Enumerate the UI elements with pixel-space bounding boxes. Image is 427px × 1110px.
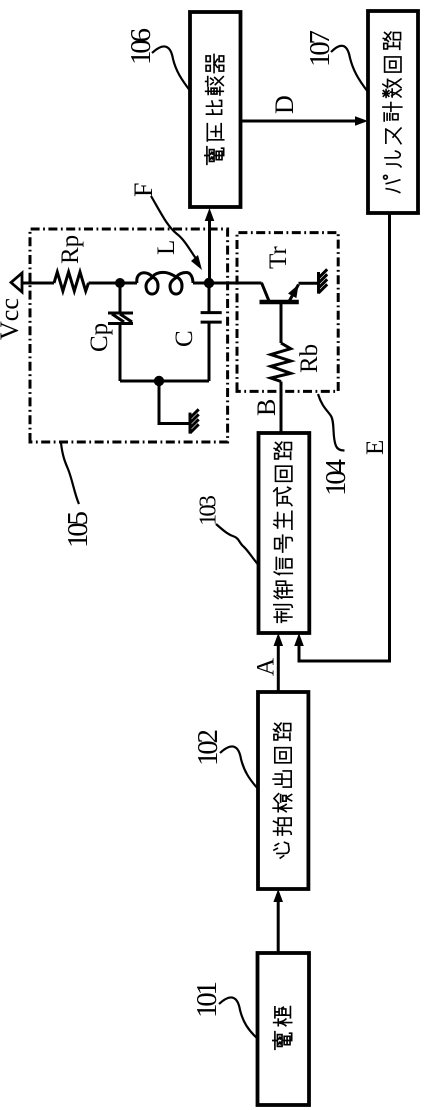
svg-text:E: E: [362, 440, 389, 455]
svg-text:106: 106: [125, 28, 157, 65]
block 101 電極: [258, 953, 310, 1105]
capacitor C branch wire: [208, 283, 211, 312]
svg-text:Cp: Cp: [86, 323, 113, 352]
left rail wire: [120, 380, 209, 383]
wire base to Rb: [280, 302, 283, 343]
svg-text:B: B: [252, 399, 281, 416]
wire Cp to left rail: [119, 324, 122, 382]
wire arrow D 106 to 107: [241, 116, 369, 126]
svg-text:L: L: [153, 240, 180, 255]
node F junction: [204, 278, 214, 288]
block 106 電圧比較器: [190, 12, 241, 207]
block 107 パルス計数回路: [368, 11, 418, 213]
wire B Rb to block 103: [280, 382, 283, 434]
svg-text:F: F: [129, 183, 158, 197]
wire emitter to ground 2: [299, 282, 319, 285]
label 102: [192, 729, 259, 790]
ground 1 wire stub: [159, 381, 190, 424]
svg-text:Rp: Rp: [57, 235, 84, 264]
transistor Tr: [260, 283, 299, 302]
svg-text:107: 107: [304, 30, 336, 67]
svg-text:C: C: [171, 330, 198, 347]
ground 1: [190, 409, 199, 433]
node junction 1: [115, 278, 125, 288]
resistor Rb: [271, 343, 291, 382]
svg-text:Rb: Rb: [296, 344, 323, 373]
wire L to node F: [193, 282, 209, 285]
svg-text:D: D: [270, 95, 299, 114]
svg-text:103: 103: [195, 495, 222, 526]
label 105: [61, 443, 94, 548]
node junction 3: [154, 376, 164, 386]
wire arrow A 102 to 103: [274, 633, 284, 692]
label 106: [125, 28, 191, 92]
wire node F to transistor collector: [209, 282, 262, 285]
wire Rp to node1: [89, 282, 138, 285]
label 103: [195, 495, 259, 565]
svg-text:A: A: [253, 658, 280, 676]
capacitor Cp: [108, 313, 133, 324]
svg-text:Vcc: Vcc: [0, 298, 24, 340]
svg-text:Tr: Tr: [265, 246, 292, 269]
svg-text:101: 101: [191, 981, 223, 1018]
node F label with leader arrow: [129, 183, 202, 270]
wire E 107 to 103: [294, 213, 389, 661]
block 102 心拍検出回路: [258, 692, 308, 889]
dash-dot box 105: [30, 229, 228, 442]
inductor L: [137, 272, 193, 294]
dash-dot box 104: [237, 233, 338, 392]
wire arrow 101 to 102: [273, 889, 283, 953]
ground 2: [319, 269, 328, 293]
svg-text:105: 105: [62, 511, 94, 548]
capacitor Cp branch wire upper: [119, 283, 122, 313]
svg-text:102: 102: [192, 729, 224, 766]
label 101: [191, 981, 258, 1039]
capacitor C: [201, 313, 222, 323]
block 103 制御信号生成回路: [259, 433, 310, 633]
svg-text:104: 104: [320, 459, 352, 497]
resistor Rp: [54, 272, 89, 291]
label 104: [318, 394, 352, 496]
Vcc power terminal: [11, 273, 54, 292]
wire C to left rail: [208, 322, 211, 381]
wire arrow F to comparator 106: [205, 208, 215, 283]
label 107: [304, 30, 368, 92]
